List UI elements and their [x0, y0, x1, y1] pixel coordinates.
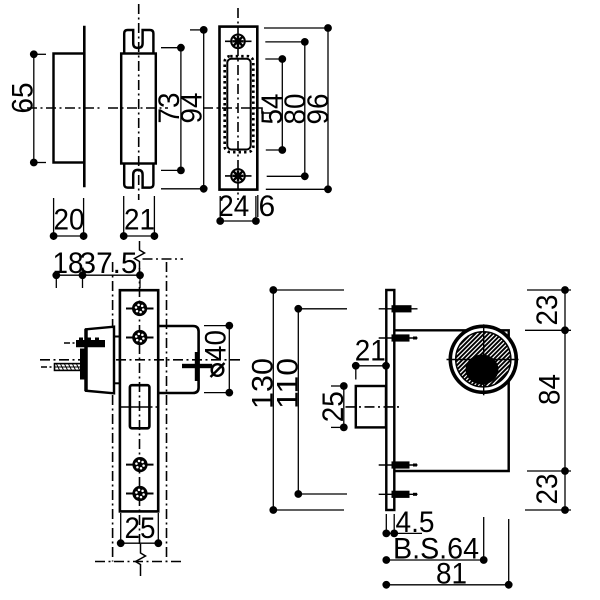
dim BS64 line [386, 559, 483, 561]
dim 4.5 ext lines [385, 514, 387, 533]
dim 20 line [54, 235, 84, 237]
dim 80 dots [301, 38, 309, 46]
dim 20 dots [50, 232, 58, 240]
screw bottom-left 4 [126, 486, 154, 501]
center line horizontal comp2 [108, 107, 168, 109]
screw side 2 [379, 334, 418, 341]
dim phi40 line [228, 326, 230, 393]
center line comp1 [27, 107, 100, 109]
spindle end [182, 364, 212, 368]
dim 24 extension lines [219, 196, 221, 224]
outside rose trapezoid [86, 327, 114, 394]
rose plate bar [84, 329, 88, 391]
screw side 3 [379, 461, 418, 468]
hub center line vertical [483, 324, 485, 395]
face plate side [386, 290, 394, 510]
strike box rectangle [54, 54, 85, 163]
dim 54 dots [278, 55, 286, 63]
dim 110 line [297, 309, 299, 494]
svg-text:23: 23 [531, 474, 564, 505]
dim 81 line [386, 584, 508, 586]
hub circle white ring [450, 326, 516, 392]
svg-text:96: 96 [302, 94, 335, 125]
svg-text:110: 110 [271, 358, 304, 409]
latch rect [130, 385, 150, 428]
break mark bottom [136, 544, 146, 576]
svg-text:23: 23 [531, 295, 564, 326]
dim 21 side ext [355, 366, 357, 380]
dim 4.5 line [386, 532, 422, 534]
dim phi40 dots [225, 322, 233, 330]
center line vertical comp2 [138, 4, 140, 200]
screw bottom circle [231, 169, 245, 183]
inside hub bar [195, 352, 199, 381]
center line horizontal comp3 with jog [203, 107, 254, 109]
dim 6 extension line [257, 195, 259, 217]
dim 73 line [180, 48, 182, 171]
dim 80 line [304, 42, 306, 176]
dim 65 line [33, 54, 35, 162]
svg-text:24: 24 [218, 190, 249, 223]
spindle center line stub [41, 366, 54, 368]
lock case rect [120, 290, 158, 511]
dim 130 dots [269, 286, 277, 294]
screw top: cross ticks [225, 40, 252, 42]
spindle hatch [57, 364, 84, 370]
dim 130 line [272, 290, 274, 510]
dim 110 stubs [298, 308, 347, 310]
hub inner dark circle [466, 355, 499, 385]
hub center line horizontal [447, 359, 519, 361]
dim 21 side: line [356, 365, 386, 367]
spindle mid line [55, 366, 85, 368]
svg-text:81: 81 [436, 558, 467, 591]
svg-text:25: 25 [317, 391, 350, 422]
dim 65 dots [30, 50, 38, 58]
dims 73 / 94 [153, 26, 209, 193]
dim 25 side dots [340, 382, 348, 390]
dim 73 dots [177, 44, 185, 52]
svg-text:25: 25 [125, 512, 156, 545]
screw bottom-left 2 [126, 330, 154, 345]
svg-text:37.5: 37.5 [80, 247, 138, 280]
break mark top [135, 241, 145, 269]
screw bottom-left 1 [126, 301, 154, 316]
dim 24 line [220, 220, 256, 222]
dim 96 dots [324, 24, 332, 32]
strike plate edge line [83, 26, 86, 188]
dim 21 dots [120, 232, 128, 240]
latch opening serrated outline [225, 56, 254, 152]
dim 54 stubs [265, 58, 282, 60]
case rect [394, 330, 508, 471]
dims 54 / 80 / 96 [256, 24, 335, 193]
dim 81 dots [382, 581, 390, 589]
screw bottom spokes [232, 170, 243, 181]
screw side 4 [379, 491, 418, 498]
dim phi40 stubs [204, 325, 229, 327]
phi symbol [212, 364, 224, 376]
center line vertical comp3 [237, 8, 239, 200]
dim 21 extension lines [123, 196, 125, 240]
face plate rectangle [220, 27, 258, 190]
screw bottom: cross ticks [225, 175, 252, 177]
dim 25 dots [117, 539, 125, 547]
spindle shaft [55, 364, 85, 371]
right dims stubs [527, 289, 571, 291]
svg-text:6: 6 [258, 190, 275, 223]
dim 25 side stubs [331, 385, 344, 387]
dim 18/37.5 dots [52, 271, 60, 279]
case center line vertical [139, 268, 141, 546]
dim 54 line [281, 59, 283, 150]
svg-text:65: 65 [6, 83, 39, 114]
svg-text:21: 21 [355, 335, 386, 368]
screw side 1 [379, 305, 418, 312]
latch side center line [346, 406, 401, 408]
dim 25 line [121, 542, 159, 544]
dim 130 stubs [273, 289, 344, 291]
svg-text:20: 20 [54, 204, 85, 237]
dim 18/37.5 line [56, 274, 140, 276]
dim 73 stubs [161, 47, 181, 49]
door top center line [143, 258, 184, 260]
dim 96 line [327, 28, 329, 189]
dim BS64 ext line [483, 517, 485, 560]
dim 4.5 dots [382, 530, 390, 538]
dim 81 ext line [508, 519, 510, 585]
cylinder center line stub [64, 342, 77, 344]
boss line bottom [114, 382, 120, 384]
dim 20 extension lines [53, 198, 55, 240]
cylinder blob [76, 338, 105, 348]
latch center line [119, 406, 159, 408]
dim 94 stubs [190, 29, 204, 31]
dim 18/37.5 stubs below dots [55, 275, 57, 288]
door bottom center line [95, 561, 183, 563]
dim 21 side dots [352, 362, 360, 370]
door line right [166, 262, 168, 562]
dim 24 dots [216, 217, 224, 225]
dim 94 line [203, 30, 205, 189]
latch opening inner rect [227, 59, 250, 150]
top tab with slot [124, 30, 153, 54]
inside rose [158, 326, 198, 393]
dim BS64 dots [382, 556, 390, 564]
screw top circle [231, 35, 245, 49]
svg-text:84: 84 [533, 374, 566, 405]
boss line top [114, 336, 120, 338]
plate body [121, 54, 156, 164]
screw bottom-left 3 [126, 457, 154, 472]
hub hatched disc [456, 332, 511, 387]
dim 110 dots [294, 305, 302, 313]
dim 96 stubs [264, 27, 328, 29]
svg-text:40: 40 [199, 330, 232, 361]
right dims dots [561, 286, 569, 294]
hub blob [80, 349, 87, 380]
svg-text:21: 21 [124, 204, 155, 237]
dim 21 line [124, 235, 155, 237]
dim 25 side: line [343, 386, 345, 427]
dim 94 dots [200, 26, 208, 34]
screw top spokes [232, 36, 243, 47]
door line left [112, 262, 114, 562]
dim 65 stubs [34, 53, 46, 55]
right dims 23/84/23 line [564, 290, 566, 510]
dim 25 ext lines [120, 513, 122, 547]
latch side rect [356, 386, 386, 427]
bottom tab with slot [124, 164, 153, 188]
main horizontal center line [40, 359, 244, 361]
dim 80 stubs [265, 41, 305, 43]
